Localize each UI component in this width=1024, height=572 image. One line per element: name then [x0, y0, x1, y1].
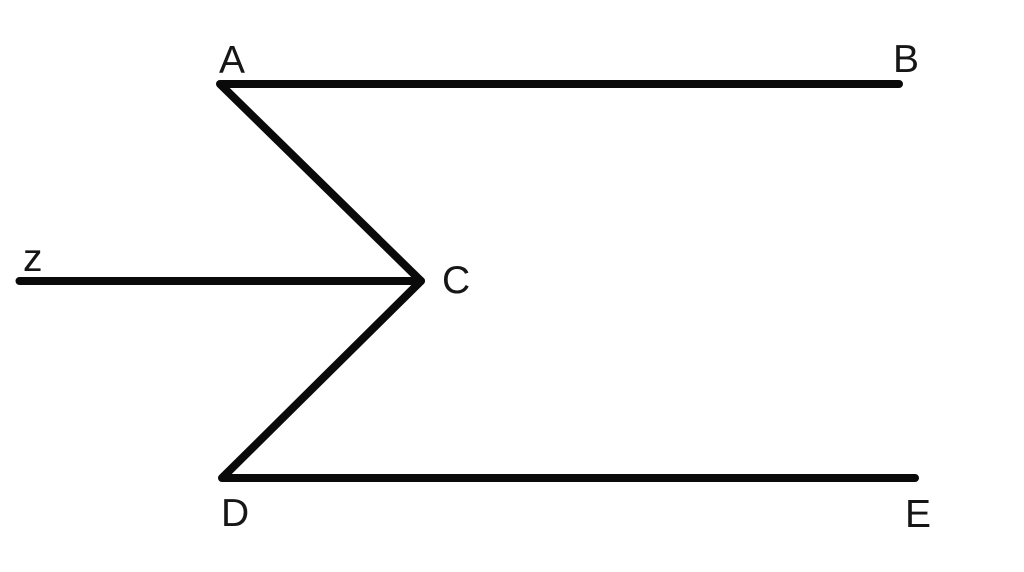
svg-text:A: A [219, 39, 245, 82]
svg-text:B: B [893, 38, 919, 81]
svg-text:C: C [442, 259, 470, 302]
svg-text:E: E [905, 493, 931, 536]
svg-text:z: z [23, 237, 43, 280]
svg-text:D: D [221, 492, 249, 535]
